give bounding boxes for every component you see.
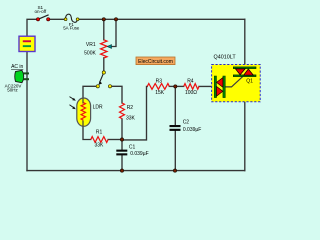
capacitor C1 xyxy=(116,150,127,156)
selector switch xyxy=(96,71,111,88)
LDR light arrows xyxy=(70,97,76,110)
svg-text:500K: 500K xyxy=(84,51,96,57)
node C1 bottom junction xyxy=(120,169,123,172)
capacitor C2 xyxy=(170,125,181,131)
wire VR1 bottom to selector xyxy=(103,58,105,71)
node wiper junction xyxy=(114,18,117,21)
node VR1 top junction xyxy=(102,18,105,21)
wire node to C1 top xyxy=(121,140,123,150)
svg-text:R4: R4 xyxy=(187,78,194,84)
wire bottom rail xyxy=(27,170,245,172)
resistor R4 xyxy=(184,84,199,90)
svg-text:33K: 33K xyxy=(94,142,104,148)
svg-text:R1: R1 xyxy=(96,130,103,136)
svg-text:R2: R2 xyxy=(127,105,134,111)
wire VR1 top branch xyxy=(103,19,105,40)
svg-text:50Hz: 50Hz xyxy=(7,87,18,92)
wire LDR bottom to R1 xyxy=(83,126,91,139)
svg-text:LDR: LDR xyxy=(93,105,103,111)
svg-text:33K: 33K xyxy=(126,116,136,122)
VR1 wiper arrow xyxy=(107,45,111,49)
wire R2 bottom to node xyxy=(121,119,123,140)
diac xyxy=(214,76,225,98)
resistor R1 xyxy=(91,137,108,143)
svg-text:0.039µF: 0.039µF xyxy=(183,127,201,133)
node R3/R4/C2 junction xyxy=(174,85,177,88)
svg-text:0.039µF: 0.039µF xyxy=(130,151,148,157)
triac Q1 xyxy=(233,67,256,77)
LDR xyxy=(77,98,91,126)
wire right rail lower xyxy=(244,76,246,171)
switch S1 xyxy=(36,15,49,21)
fuse F1 element xyxy=(66,14,78,22)
wire R3 to R4 xyxy=(169,85,183,87)
wire left rail xyxy=(26,52,28,171)
svg-text:ElecCircuit.com: ElecCircuit.com xyxy=(138,59,173,65)
svg-text:Q4010LT: Q4010LT xyxy=(214,54,237,60)
node R1/R2/C1 junction xyxy=(120,138,123,141)
wire node to R3 riser xyxy=(122,86,147,139)
wire diac gate into triac xyxy=(225,76,243,87)
wire selector right contact to R2 xyxy=(112,86,123,103)
wire C2 top xyxy=(174,86,176,125)
wire top rail left segment xyxy=(27,19,38,36)
node C2 bottom junction xyxy=(173,169,176,172)
ElecCircuit.com label xyxy=(136,57,175,65)
svg-text:R3: R3 xyxy=(156,78,163,84)
junction dots xyxy=(102,18,177,173)
wire R4 to diac xyxy=(199,85,214,87)
fuse terminals xyxy=(64,18,79,21)
wire switch to fuse xyxy=(48,18,65,20)
svg-text:100Ω: 100Ω xyxy=(185,90,197,96)
wire fuse to top-right corner xyxy=(78,18,245,20)
wire selector left contact to LDR xyxy=(83,86,96,98)
svg-text:C2: C2 xyxy=(183,119,190,125)
svg-text:Q1: Q1 xyxy=(246,79,253,85)
svg-text:5A Fuse: 5A Fuse xyxy=(63,25,80,30)
wire right rail upper xyxy=(244,19,246,68)
svg-text:AC in: AC in xyxy=(11,64,23,70)
wire R1 right to node xyxy=(108,139,122,141)
wire C1 bottom to rail xyxy=(121,155,123,170)
wire C2 bottom to rail xyxy=(174,131,176,171)
outlet box xyxy=(19,36,35,51)
potentiometer VR1 xyxy=(101,40,107,58)
wire VR1 wiper feed xyxy=(109,19,117,46)
resistor R2 xyxy=(120,103,125,119)
triac module box Q4010LT xyxy=(212,65,261,102)
svg-text:15K: 15K xyxy=(155,90,165,96)
AC plug xyxy=(15,70,29,82)
resistor R3 xyxy=(147,84,169,90)
svg-text:VR1: VR1 xyxy=(86,42,96,48)
svg-text:C1: C1 xyxy=(129,144,136,150)
svg-text:on-off: on-off xyxy=(34,9,46,14)
